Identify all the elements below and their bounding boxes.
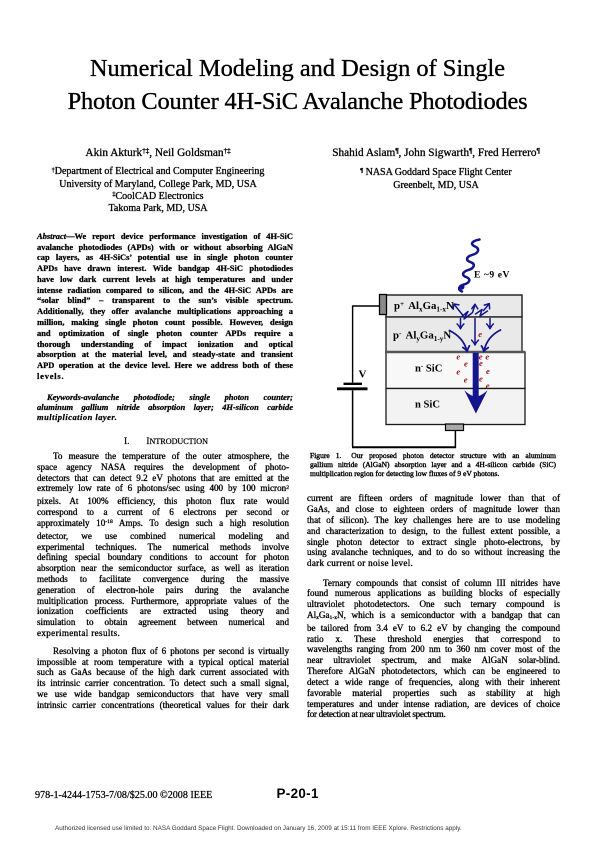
avalanche thick arrow: [464, 353, 487, 414]
svg-text:V: V: [359, 369, 367, 381]
wire bottom: [353, 390, 456, 448]
junction line p-/n-: [385, 351, 525, 353]
svg-text:e: e: [478, 329, 482, 339]
section heading: [40, 437, 292, 447]
svg-text:e: e: [479, 358, 483, 368]
svg-text:e: e: [486, 381, 490, 391]
svg-text:e: e: [485, 351, 489, 361]
down arrows into p- layer: [457, 319, 493, 346]
authors left: [37, 147, 279, 215]
footer authorization: [55, 825, 545, 832]
intro para 1: [37, 451, 289, 639]
electron e labels: [456, 329, 490, 390]
figure 1 device diagram: [300, 235, 565, 450]
svg-text:n SiC: n SiC: [415, 400, 440, 411]
right col para 3: [307, 493, 560, 569]
title: [0, 52, 595, 118]
layer p+ AlGaN: [386, 295, 522, 317]
keywords: [37, 392, 293, 423]
battery plate long: [337, 387, 368, 390]
layer p- AlGaN: [386, 317, 522, 352]
svg-text:e: e: [456, 367, 460, 377]
scatter arrows cluster: [453, 304, 489, 319]
footer copyright: [35, 790, 212, 801]
abstract: [37, 231, 293, 382]
intro para 2: [37, 646, 289, 711]
layer n- SiC: [386, 352, 525, 389]
wire top: [353, 306, 380, 383]
battery plate short: [344, 383, 363, 385]
bottom contact: [446, 424, 464, 431]
svg-text:n- SiC: n- SiC: [415, 362, 442, 374]
svg-text:e: e: [479, 373, 483, 383]
svg-text:e: e: [486, 366, 490, 376]
figure caption: [310, 451, 556, 479]
svg-text:e: e: [464, 375, 468, 385]
photon squiggle: [459, 240, 479, 292]
svg-text:E ~9 eV: E ~9 eV: [474, 270, 510, 281]
svg-text:e: e: [456, 352, 460, 362]
curved arrows converging: [450, 330, 501, 352]
top contact: [380, 295, 387, 315]
footer page number: [277, 786, 319, 801]
layer n SiC: [386, 389, 525, 425]
authors right: [316, 147, 556, 192]
right col para 4: [307, 578, 560, 721]
svg-text:e: e: [464, 358, 468, 368]
